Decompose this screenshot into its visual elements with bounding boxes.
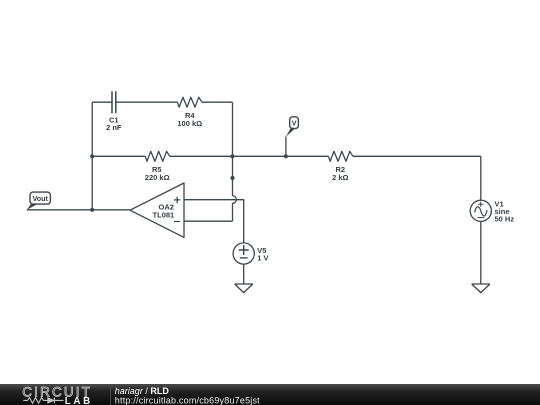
node: junction dot left column/output wire xyxy=(90,208,94,212)
footer divider line xyxy=(110,384,112,405)
node: junction dot probe/main wire xyxy=(284,154,288,158)
voltage source V1 plus mark xyxy=(478,202,483,207)
wire: top feedback left lead (92,102)-(112,102) xyxy=(92,101,112,103)
wire: left vertical feedback column x=92 xyxy=(91,102,93,210)
logo resistor-diode symbol xyxy=(23,398,63,404)
wire: op-amp + input lead to V5 top xyxy=(184,200,244,243)
svg-text:TL081: TL081 xyxy=(153,210,175,219)
resistor R2 zigzag xyxy=(328,151,353,161)
wire: op-amp - input lead xyxy=(184,220,233,222)
probe V pointer wedge xyxy=(286,128,295,137)
wire: op-amp output to Vout tip xyxy=(27,209,130,211)
svg-text:hariagr / RLD: hariagr / RLD xyxy=(115,386,170,396)
svg-text:http://circuitlab.com/cb69y8u7: http://circuitlab.com/cb69y8u7e5jst xyxy=(115,395,260,405)
op-amp OA2 minus input mark xyxy=(174,221,180,223)
resistor R5 zigzag xyxy=(145,151,170,161)
node: junction dot left column/main wire xyxy=(90,154,94,158)
probe V box xyxy=(290,117,299,129)
wire: probe V drop to main wire xyxy=(285,137,287,157)
voltage source V1 circle xyxy=(470,200,491,221)
voltage source V5 minus mark xyxy=(240,257,248,259)
svg-text:1 V: 1 V xyxy=(257,253,268,262)
wire: right vertical feedback with hop over + input, down to - input xyxy=(233,102,237,221)
svg-text:100 kΩ: 100 kΩ xyxy=(177,119,202,128)
node: dot on feedback vertical xyxy=(230,176,234,180)
wire: R4 right lead to right feedback corner xyxy=(202,101,233,103)
voltage source V5 plus mark xyxy=(239,245,249,255)
resistor R4 zigzag xyxy=(177,97,202,107)
wire: V1 bottom to ground xyxy=(480,221,482,284)
ground under V5 xyxy=(235,284,253,293)
node: junction dot feedback/main wire xyxy=(230,154,234,158)
op-amp OA2 plus input mark xyxy=(174,197,180,203)
capacitor C1 plates xyxy=(112,91,116,113)
svg-text:Vout: Vout xyxy=(32,194,48,203)
wire: V1 column top segment xyxy=(480,156,482,200)
svg-text:LAB: LAB xyxy=(65,396,93,405)
ground under V1 xyxy=(472,284,490,293)
svg-text:V: V xyxy=(292,119,297,128)
wire: R2 right lead to V1 column xyxy=(353,155,481,157)
wire: V5 bottom to ground xyxy=(243,264,245,284)
wire: C1 right lead to R4 left lead xyxy=(116,101,178,103)
svg-text:220 kΩ: 220 kΩ xyxy=(145,173,170,182)
wire: R5 right lead to R2 left lead xyxy=(170,155,329,157)
svg-text:50 Hz: 50 Hz xyxy=(495,215,515,224)
wire: main horizontal left segment to R5 xyxy=(92,155,145,157)
flag Vout box xyxy=(30,192,50,204)
flag Vout pointer wedge xyxy=(27,204,38,210)
voltage source V1 sine symbol xyxy=(475,207,487,216)
op-amp OA2 triangle xyxy=(130,183,184,237)
voltage source V5 circle xyxy=(233,243,254,264)
svg-text:2 kΩ: 2 kΩ xyxy=(332,173,348,182)
svg-text:2 nF: 2 nF xyxy=(106,123,122,132)
voltage source V1 minus mark xyxy=(477,217,484,219)
